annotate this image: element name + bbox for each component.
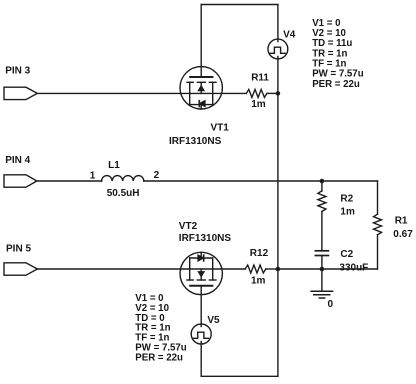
svg-text:0.67: 0.67 xyxy=(393,229,413,240)
port PIN5 xyxy=(4,263,37,275)
wire node A to node B vertical xyxy=(277,93,279,269)
ground 0 xyxy=(311,291,333,298)
svg-text:PIN 3: PIN 3 xyxy=(5,66,30,77)
svg-text:1m: 1m xyxy=(251,275,266,286)
wire C2 to bottom rail xyxy=(321,256,323,269)
wire R1 top drop xyxy=(377,181,379,214)
wire R1 to bottom rail xyxy=(377,235,379,269)
svg-text:PER = 22u: PER = 22u xyxy=(312,79,360,90)
wire L1 to R1 corner xyxy=(144,180,378,182)
svg-text:PER = 22u: PER = 22u xyxy=(135,353,183,364)
svg-text:1: 1 xyxy=(90,170,96,181)
capacitor C2 xyxy=(315,251,328,256)
transistor Q VT1 xyxy=(180,67,222,109)
wire node B to R1 bottom xyxy=(278,268,378,270)
svg-text:R11: R11 xyxy=(251,73,269,84)
node A junction xyxy=(276,91,281,96)
svg-text:2: 2 xyxy=(154,170,160,181)
wire PIN3 row xyxy=(37,92,246,94)
resistor R1 xyxy=(374,214,382,235)
wire bottom rail xyxy=(201,375,278,377)
svg-text:1m: 1m xyxy=(340,207,355,218)
resistor R2 xyxy=(318,191,326,212)
port PIN4 xyxy=(4,175,37,187)
V4 parameter text block xyxy=(312,18,364,90)
wire V5 bottom xyxy=(200,344,202,376)
svg-text:R12: R12 xyxy=(250,248,269,259)
wire V4 bottom xyxy=(277,59,279,94)
svg-text:C2: C2 xyxy=(340,249,353,260)
wire node B down to bottom rail xyxy=(277,269,279,376)
svg-text:PIN 5: PIN 5 xyxy=(6,244,31,255)
svg-text:V5: V5 xyxy=(207,315,220,326)
wire top rail xyxy=(201,4,278,6)
source V4 xyxy=(268,39,288,59)
wire R2 top drop xyxy=(321,181,323,191)
resistor R12 xyxy=(245,265,266,273)
wire ground stem xyxy=(321,269,323,291)
wire R2 to C2 xyxy=(321,212,323,251)
wire R12 to node B xyxy=(266,268,278,270)
svg-text:PIN 4: PIN 4 xyxy=(5,155,30,166)
svg-text:VT1: VT1 xyxy=(211,123,230,134)
wire VT2 gate lead xyxy=(200,286,202,324)
svg-text:330uF: 330uF xyxy=(339,263,368,274)
port PIN3 xyxy=(4,87,37,99)
wire V4 top xyxy=(277,5,279,40)
svg-text:V4: V4 xyxy=(283,29,296,40)
svg-text:VT2: VT2 xyxy=(179,221,198,232)
resistor R11 xyxy=(246,89,267,97)
V5 parameter text block xyxy=(135,293,187,364)
node J2 junction xyxy=(320,267,325,272)
wire R11 to node A xyxy=(267,92,278,94)
svg-text:R2: R2 xyxy=(340,193,353,204)
wire VT1 gate lead xyxy=(200,5,202,78)
node B junction xyxy=(276,267,281,272)
source V5 xyxy=(191,324,211,344)
svg-text:0: 0 xyxy=(328,299,334,310)
wire PIN4 to L1 xyxy=(37,180,102,182)
node J1 junction xyxy=(320,179,325,184)
wire PIN5 row xyxy=(37,268,245,270)
transistor Q VT2 xyxy=(180,252,222,294)
svg-text:50.5uH: 50.5uH xyxy=(107,188,140,199)
svg-text:R1: R1 xyxy=(395,216,408,227)
svg-text:IRF1310NS: IRF1310NS xyxy=(179,233,232,244)
inductor L1 xyxy=(102,176,144,181)
svg-text:IRF1310NS: IRF1310NS xyxy=(169,136,222,147)
svg-text:L1: L1 xyxy=(108,160,120,171)
svg-text:1m: 1m xyxy=(251,99,266,110)
